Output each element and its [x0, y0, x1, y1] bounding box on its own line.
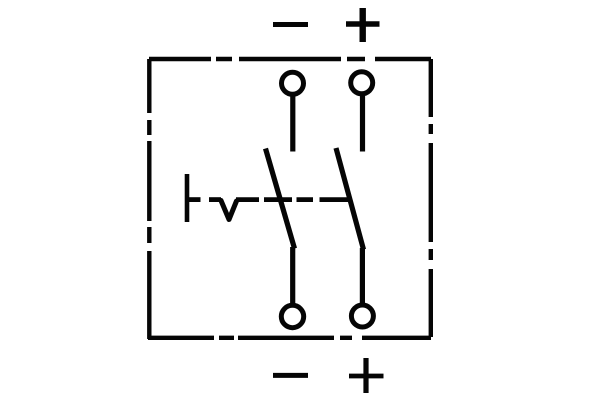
wire: linkage dash	[236, 197, 259, 202]
switch contact lever, pole 2 (open)	[336, 148, 364, 250]
enclosure left edge (dash-dot boundary)	[147, 59, 151, 339]
wire: pole 2 moving contact to bottom terminal	[360, 248, 365, 306]
switch contact lever, pole 1 (open)	[266, 149, 295, 249]
label minus (bottom, negative terminal)	[273, 373, 308, 378]
wire: linkage dash crossing pole 1 lever	[264, 197, 292, 202]
terminal circle, top right	[351, 72, 373, 94]
terminal circle, top left	[282, 72, 304, 94]
wire: pole 1 moving contact to bottom terminal	[290, 247, 295, 306]
label plus (top, positive supply)	[346, 8, 380, 42]
label minus (top, negative supply)	[273, 22, 308, 27]
wire: linkage segment to pole 2 lever	[320, 197, 349, 202]
enclosure right edge (dash-dot boundary)	[429, 59, 433, 337]
detent (latching V notch)	[221, 201, 237, 220]
enclosure bottom edge (dash-dot boundary)	[148, 336, 431, 340]
actuator bar (manual operating member)	[185, 174, 190, 222]
wire: linkage segment from actuator	[187, 197, 201, 202]
wire: top-right fixed contact stem	[360, 94, 365, 152]
label plus (bottom, positive terminal)	[349, 358, 384, 393]
wire: linkage dash	[297, 197, 314, 202]
terminal circle, bottom left	[281, 305, 303, 327]
wire: linkage dash	[209, 197, 221, 202]
terminal circle, bottom right	[351, 305, 373, 327]
enclosure top edge (dash-dot boundary)	[149, 57, 431, 61]
wire: top-left fixed contact stem	[290, 95, 295, 152]
